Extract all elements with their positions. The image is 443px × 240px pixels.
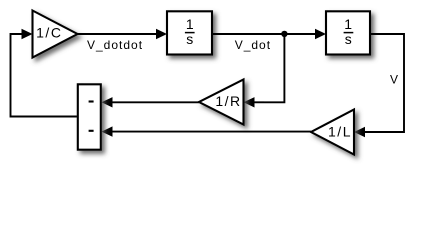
arrowhead into gain 1/R [244,97,255,107]
arrowhead into gain 1/C [22,29,33,39]
arrowhead into integrator 1 [156,29,167,39]
integrator block 1 (1/s) [167,11,212,54]
svg-text:V_dot: V_dot [235,38,271,52]
arrowhead into sum input 1 [102,97,113,107]
wire 1/L output to sum input 2 [113,131,312,133]
wire junction down to gain 1/R [264,34,284,102]
integrator 1 label: 1 over s [185,16,195,47]
svg-text:s: s [186,31,193,47]
arrowhead into gain 1/L [354,127,365,137]
svg-text:1/C: 1/C [36,25,62,41]
wire 1/R output to sum input 1 [113,101,200,103]
svg-text:s: s [345,31,352,47]
wire integrator 1 output to integrator 2 [212,33,316,35]
wire 1/C output to integrator 1 [78,33,158,35]
wire feedback sum output to 1/C input [11,34,78,117]
wire integrator 2 output down to gain 1/L [364,34,404,132]
sum block [78,84,101,149]
svg-text:1: 1 [344,16,352,32]
junction node dot [281,31,287,37]
gain block 1/R [199,80,244,125]
sum minus sign 1 [89,100,94,102]
integrator block 2 (1/s) [326,11,370,54]
svg-text:V: V [390,73,398,87]
svg-text:1/L: 1/L [328,124,352,140]
integrator 2 label: 1 over s [344,16,354,47]
svg-text:V_dotdot: V_dotdot [87,38,143,52]
svg-text:1: 1 [186,16,194,32]
sum minus sign 2 [89,130,94,132]
arrowhead into integrator 2 [315,29,326,39]
wire stub into 1/R arrow [255,101,265,103]
gain block 1/L [311,110,354,155]
gain block 1/C [33,11,78,58]
arrowhead into sum input 2 [102,126,113,136]
svg-text:1/R: 1/R [215,93,241,109]
